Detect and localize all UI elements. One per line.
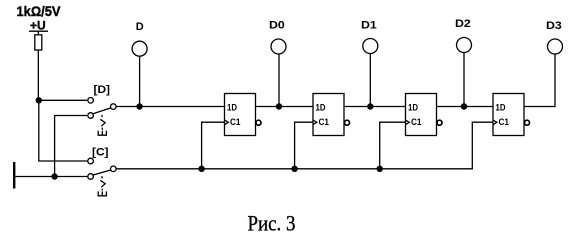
- svg-text:C1: C1: [499, 117, 510, 128]
- svg-text:D3: D3: [546, 20, 562, 32]
- svg-text:1kΩ/5V: 1kΩ/5V: [17, 3, 62, 19]
- svg-text:1D: 1D: [316, 102, 326, 113]
- svg-text:1D: 1D: [408, 102, 418, 113]
- svg-text:1D: 1D: [496, 102, 506, 113]
- flip-flop U1: [225, 94, 262, 136]
- switch SD lever: [93, 108, 111, 114]
- svg-text:D: D: [136, 21, 144, 33]
- wire node A to switch SD upper contact: [39, 99, 88, 101]
- wire resistor to node A: [37, 50, 39, 100]
- ground rail wire: [15, 176, 88, 178]
- flip-flop U4: [493, 94, 530, 136]
- power +U rail bar: [29, 30, 48, 32]
- wire clock riser to U3 C1: [380, 122, 406, 169]
- wire U3 Q to U4 1D: [437, 106, 494, 108]
- wire D terminal drop: [139, 56, 141, 107]
- terminal D3: [548, 39, 563, 54]
- switch SC upper contact: [88, 158, 94, 164]
- wire C line: SC pole along clock rail: [116, 122, 493, 169]
- switch SD upper contact: [88, 98, 94, 104]
- svg-text:D2: D2: [455, 18, 471, 30]
- switch SC actuator dashes: [101, 176, 103, 178]
- node A junction: [36, 97, 42, 103]
- wire D2 terminal drop: [463, 53, 465, 107]
- wire D line: SD pole to U1 1D input: [116, 106, 224, 108]
- terminal D1: [363, 39, 378, 54]
- node D2 junction: [461, 103, 467, 109]
- switch SD pole contact: [111, 104, 117, 110]
- ground rail junction: [51, 173, 57, 179]
- ground: [13, 162, 15, 189]
- wire U1 Q to U2 1D: [256, 106, 314, 108]
- wire clock riser to U2 C1: [295, 122, 313, 169]
- svg-text:D1: D1: [361, 20, 377, 32]
- resistor R 1kOhm: [35, 35, 42, 50]
- wire U2 Q to U3 1D: [344, 106, 406, 108]
- svg-text:C1: C1: [411, 117, 422, 128]
- svg-text:1D: 1D: [227, 102, 237, 113]
- wire clock riser to U1 C1: [202, 122, 225, 169]
- wire D1 terminal drop: [369, 54, 371, 107]
- switch SD lower contact: [88, 113, 94, 119]
- svg-text:D0: D0: [269, 20, 285, 32]
- terminal D2: [457, 38, 472, 53]
- terminal D: [132, 41, 147, 56]
- wire U4 Q to D3 terminal: [524, 54, 555, 106]
- node C3 junction: [377, 166, 383, 172]
- wire node A down to switch SC upper contact: [39, 100, 88, 161]
- switch SC actuator E base: [98, 191, 106, 195]
- svg-text:C1: C1: [230, 117, 241, 128]
- svg-text:+U: +U: [30, 19, 46, 33]
- node D junction: [136, 103, 142, 109]
- flip-flop U3: [406, 94, 443, 136]
- node D0 junction: [276, 103, 282, 109]
- node D1 junction: [367, 103, 373, 109]
- switch SC pole contact: [111, 166, 117, 172]
- switch SD actuator dashes: [101, 115, 103, 117]
- svg-text:C1: C1: [319, 117, 330, 128]
- flip-flop U2: [313, 94, 350, 136]
- svg-text:[D]: [D]: [94, 84, 111, 96]
- switch SD actuator E base: [98, 131, 106, 135]
- svg-text:Рис. 3: Рис. 3: [248, 211, 296, 236]
- node C1 junction: [198, 166, 204, 172]
- wire D0 terminal drop: [278, 54, 280, 106]
- switch SC lower contact: [88, 174, 94, 180]
- wire +U to resistor: [37, 31, 39, 35]
- wire SD lower contact to ground rail: [55, 116, 88, 177]
- switch SC lever: [93, 170, 111, 175]
- terminal D0: [271, 39, 286, 54]
- node C2 junction: [291, 166, 297, 172]
- svg-text:[C]: [C]: [92, 147, 109, 159]
